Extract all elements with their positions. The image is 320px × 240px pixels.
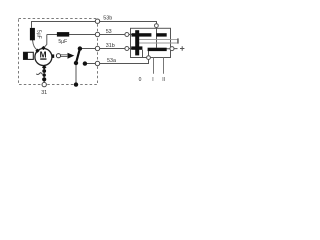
svg-text:0: 0: [139, 77, 142, 83]
svg-text:31b: 31b: [106, 43, 115, 49]
svg-text:I: I: [152, 77, 153, 83]
svg-text:53b: 53b: [103, 16, 112, 22]
svg-text:5µF: 5µF: [58, 39, 67, 45]
svg-text:31: 31: [41, 90, 47, 96]
svg-text:5µF: 5µF: [36, 30, 42, 39]
svg-text:M: M: [40, 49, 47, 59]
svg-text:II: II: [162, 77, 165, 83]
svg-text:53a: 53a: [107, 58, 116, 64]
svg-text:53: 53: [106, 29, 112, 35]
